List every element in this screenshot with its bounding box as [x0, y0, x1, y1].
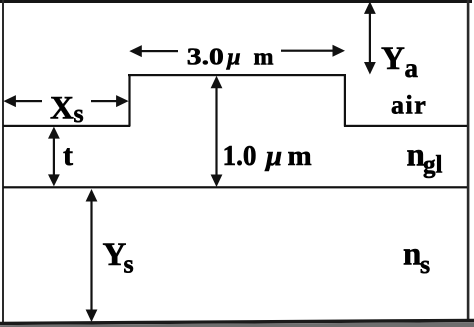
border frame top: [0, 0, 472, 3]
dimension arrow t vertical double: [48, 127, 60, 187]
rib top line: [128, 74, 346, 76]
svg-text:1.0μm: 1.0μm: [223, 140, 312, 172]
svg-text:ngl: ngl: [407, 137, 443, 178]
border frame left: [2, 0, 4, 322]
glass/substrate interface line: [3, 186, 467, 188]
rib left edge: [128, 74, 130, 127]
border frame right: [467, 0, 470, 320]
svg-text:ns: ns: [403, 237, 430, 279]
rib right edge: [344, 74, 346, 127]
slab top line right: [344, 125, 467, 127]
dimension arrow Xs left: [3, 95, 42, 107]
svg-text:t: t: [63, 139, 73, 172]
svg-text:Ya: Ya: [381, 41, 419, 83]
dimension arrow 3.0um right: [281, 45, 345, 57]
svg-text:air: air: [391, 91, 427, 120]
dimension arrow Ya vertical double: [364, 1, 376, 74]
dimension arrow Ys vertical double: [86, 189, 98, 322]
svg-text:3.0μm: 3.0μm: [187, 44, 274, 70]
svg-text:Ys: Ys: [103, 237, 134, 279]
border frame bottom: [0, 319, 474, 327]
dimension arrow 1.0um vertical double: [211, 76, 223, 187]
svg-text:Xs: Xs: [50, 91, 84, 128]
slab top line left: [3, 125, 130, 127]
dimension arrow Xs right: [91, 95, 129, 107]
dimension arrow 3.0um left: [129, 45, 178, 57]
